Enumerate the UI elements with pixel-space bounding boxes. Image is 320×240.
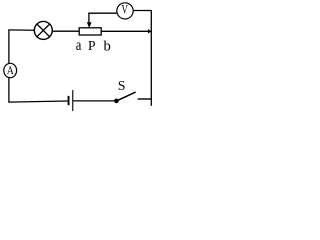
- svg-text:b: b: [104, 39, 111, 55]
- svg-text:a: a: [76, 37, 82, 54]
- svg-text:V: V: [122, 3, 129, 17]
- svg-text:S: S: [118, 78, 126, 93]
- svg-text:A: A: [7, 65, 15, 77]
- svg-text:P: P: [88, 38, 96, 53]
